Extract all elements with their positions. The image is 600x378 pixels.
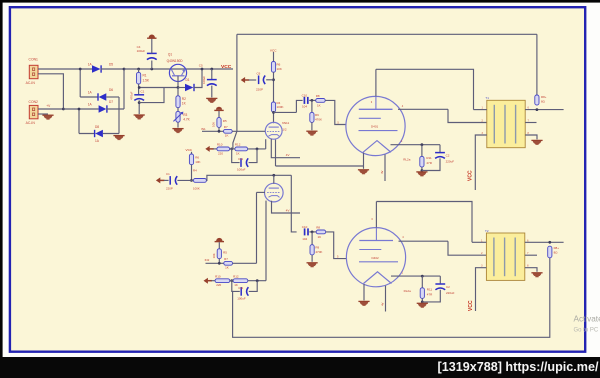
svg-text:220uF: 220uF (446, 160, 455, 164)
driver tube V1 (265, 122, 282, 139)
resistor R20 1K (316, 230, 326, 234)
svg-text:1K: 1K (318, 235, 322, 239)
resistor R6 plate load upper (273, 52, 275, 62)
svg-text:VCC: VCC (468, 170, 474, 181)
svg-text:R11: R11 (426, 156, 432, 160)
T2 left pin3 wire and VCC (476, 268, 487, 311)
ground of R21 (307, 263, 318, 267)
V4 cathode wire right (391, 275, 440, 277)
svg-text:Go to PC se: Go to PC se (574, 328, 600, 334)
svg-text:R9: R9 (315, 245, 319, 249)
output transformer T1 (487, 100, 525, 147)
load resistor R13 (535, 95, 539, 105)
svg-text:220uF: 220uF (446, 291, 455, 295)
ground of C1 (134, 115, 145, 119)
wire R7 to V1 grid (232, 130, 265, 132)
capacitor C1 470uF (134, 94, 144, 96)
power bar above C4 (149, 35, 155, 38)
svg-text:R8+: R8+ (541, 95, 547, 99)
resistor R16 10K (191, 152, 193, 154)
ground of T2 secondary (531, 273, 542, 277)
capacitor C5 100uF (210, 68, 213, 71)
ground at CON2 pin2 (38, 113, 48, 115)
wire CON1 pin2 down to row3 (38, 74, 63, 109)
wire to grid vertical (233, 262, 257, 264)
T2 right pin1 row (525, 241, 564, 243)
svg-text:D402: D402 (372, 256, 380, 260)
svg-text:IN1: IN1 (201, 127, 206, 131)
resistor R15 10K (218, 242, 220, 249)
cathode row port arrow (205, 146, 209, 152)
screen jog to T2 pin2 (448, 241, 486, 255)
resistor R17 1K (224, 261, 233, 265)
V2 screen lead (398, 108, 448, 110)
cathode bypass cap C15 (439, 276, 441, 283)
svg-text:AC-IN: AC-IN (26, 81, 36, 85)
svg-text:RL2a: RL2a (403, 158, 411, 162)
svg-text:47R: 47R (426, 161, 432, 165)
diode D8 (95, 130, 103, 137)
svg-text:CON2: CON2 (29, 100, 39, 104)
svg-text:R4: R4 (277, 101, 281, 105)
bottom coupling cap C14 (304, 228, 306, 235)
svg-text:4V: 4V (381, 302, 385, 306)
svg-text:R7: R7 (224, 125, 228, 129)
svg-text:6N11: 6N11 (282, 121, 289, 125)
svg-text:100K: 100K (193, 186, 200, 190)
T1 right pin2 stub (525, 122, 536, 124)
resistor R4 100K (271, 102, 275, 112)
svg-text:T1: T1 (485, 96, 489, 100)
svg-text:C2: C2 (446, 153, 450, 157)
feedback vertical left (236, 34, 238, 131)
ground of V2 cathode (358, 170, 369, 174)
svg-text:4V: 4V (380, 170, 384, 174)
V2 cathode wire right (391, 144, 441, 146)
V2 heater lead down (384, 155, 386, 182)
svg-text:D401: D401 (371, 125, 379, 129)
svg-text:220: 220 (216, 283, 221, 287)
svg-text:D1: D1 (186, 78, 190, 82)
svg-text:C10: C10 (302, 93, 308, 97)
resistor R8 grid stopper (316, 99, 326, 103)
resistor R2 below Q1 (177, 88, 179, 96)
resistor R19 (233, 279, 248, 283)
feedback jog to cathode node (233, 131, 237, 149)
wire Q1 base down (177, 76, 179, 88)
svg-text:Q40N150D: Q40N150D (167, 59, 184, 63)
wire row4 left (79, 133, 95, 135)
svg-text:10K: 10K (212, 122, 216, 127)
plus bus vertical (123, 69, 125, 109)
ground of C5 (206, 98, 217, 102)
svg-text:VCC: VCC (221, 64, 232, 70)
svg-text:R8: R8 (316, 94, 320, 98)
svg-text:10K: 10K (212, 253, 216, 258)
svg-text:[1319x788] https://upic.me/: [1319x788] https://upic.me/ (438, 360, 599, 374)
resistor R12 feedback (235, 147, 248, 151)
svg-text:470K: 470K (315, 250, 322, 254)
svg-text:100uF: 100uF (237, 297, 246, 301)
svg-text:4.7K: 4.7K (183, 117, 190, 121)
svg-text:R8+: R8+ (554, 246, 560, 250)
load resistor R23 (548, 246, 552, 258)
svg-text:C11: C11 (238, 157, 243, 161)
minus bus vertical (118, 97, 120, 134)
svg-text:R12: R12 (233, 274, 239, 278)
svg-text:C1: C1 (166, 172, 170, 176)
ground of R22 (417, 303, 428, 307)
svg-text:470K: 470K (315, 118, 322, 122)
branch to coupling network (274, 111, 297, 113)
svg-text:D5: D5 (109, 62, 113, 66)
V3 plate lead up (273, 175, 275, 183)
wire R4 bottom to tube plate (273, 112, 275, 123)
connector CON1 (29, 65, 38, 78)
svg-text:CON1: CON1 (29, 57, 39, 61)
svg-text:220P: 220P (256, 87, 263, 91)
T1 right pin1 row to load (525, 109, 563, 111)
wire R6 to node (273, 72, 275, 102)
wire cap to junction (177, 179, 193, 181)
main raw rail to VCC (124, 68, 233, 70)
resistor R7 1K horizontal (224, 129, 233, 133)
svg-text:R5: R5 (223, 119, 227, 123)
VCC arrow above R5 (216, 107, 222, 110)
svg-text:VCC: VCC (468, 300, 474, 311)
resistor R21 470K (311, 232, 313, 245)
svg-text:R10: R10 (217, 143, 223, 147)
svg-text:C1: C1 (141, 89, 145, 93)
diode D1 (178, 87, 185, 89)
wire C1 to ground (138, 100, 140, 114)
svg-text:C10: C10 (302, 225, 308, 229)
svg-text:IN2: IN2 (205, 258, 210, 262)
wire D5 to plus bus (101, 68, 125, 70)
V2 cathode lead left to ground (363, 153, 365, 169)
power tube V2 (346, 96, 405, 155)
heater wire to right (276, 165, 364, 167)
V4 heater lead down (385, 286, 387, 312)
wire D7 to plus bus (106, 108, 124, 110)
ground of Q1 bias chain (172, 129, 183, 133)
cathode resistor R22 47R (421, 276, 423, 288)
svg-text:D6: D6 (109, 88, 113, 92)
V4 cathode lead left (363, 284, 365, 300)
V1 cathode lead (265, 139, 267, 149)
T1 left pin1 stub (474, 109, 487, 111)
svg-text:D7: D7 (109, 100, 113, 104)
bottom grid row wire (206, 262, 224, 264)
T2 left pin1 stub (472, 241, 486, 243)
resistor R1 (137, 68, 140, 71)
svg-text:R5: R5 (223, 250, 227, 254)
svg-text:VCC: VCC (186, 148, 193, 152)
bottom feedback wire (232, 258, 550, 338)
svg-text:Q1: Q1 (168, 53, 172, 57)
svg-text:R6: R6 (195, 156, 199, 160)
svg-text:R4: R4 (193, 169, 197, 173)
T1 right pin3 to ground (525, 135, 537, 139)
wire row3 junction to D7 (63, 108, 98, 110)
svg-text:47R: 47R (427, 292, 433, 296)
port arrow bottom plate net (156, 177, 160, 183)
cathode bypass cap C2 220uF (439, 145, 441, 152)
svg-text:1.5K: 1.5K (143, 79, 150, 83)
bottom plate wire jog up (206, 175, 291, 180)
ground of T1 secondary (531, 140, 542, 144)
resistor R18 (212, 280, 216, 282)
resistor R5 10K vertical (218, 111, 220, 118)
wire cathode row to tube (248, 148, 266, 150)
resistor R10 (213, 148, 217, 150)
plate to transformer wire (376, 69, 474, 109)
cap C12 input (164, 179, 169, 181)
svg-text:R3: R3 (183, 113, 187, 117)
trimmer R3 (177, 108, 179, 112)
wire R3 to ground (177, 122, 179, 127)
wire R20 to power tube grid (326, 232, 347, 259)
svg-text:AC-IN: AC-IN (26, 121, 36, 125)
V4 screen lead (399, 240, 449, 242)
diode D5 (92, 65, 101, 72)
VCC arrow bottom R15 (216, 238, 222, 241)
svg-text:R11: R11 (427, 288, 433, 292)
cathode resistor R11 47R (421, 145, 423, 157)
svg-text:T2: T2 (485, 229, 489, 233)
black left edge (0, 0, 3, 378)
AC bus rows1-2 (79, 69, 81, 97)
capacitor C4 100uF at top (150, 68, 153, 71)
output transformer T2 (486, 233, 524, 280)
T2 right pin2 stub (525, 254, 537, 256)
resistor R9 470K grid leak (311, 100, 313, 112)
svg-text:C2: C2 (446, 285, 450, 289)
svg-text:4V: 4V (286, 208, 290, 212)
svg-text:R8: R8 (316, 226, 320, 230)
diode D6 (99, 93, 107, 100)
svg-text:1K: 1K (225, 134, 229, 138)
ground of R11 (416, 172, 427, 176)
wire C10 to junction (309, 99, 316, 101)
svg-text:220P: 220P (166, 186, 173, 190)
transistor Q1 (169, 64, 186, 81)
svg-text:C5: C5 (199, 64, 203, 68)
wire C14 to junction (309, 231, 316, 233)
svg-text:104: 104 (302, 237, 307, 241)
diode D7 (99, 105, 107, 112)
wire cathode row to tube lead (248, 280, 266, 282)
wire D1 cathode up to rail (194, 69, 202, 88)
svg-text:1K: 1K (225, 266, 229, 270)
feedback wire top span (237, 33, 537, 35)
ground of rectifier minus (113, 136, 124, 140)
wire CON2 pin1 to junction (38, 108, 63, 110)
V2 plate wire up (375, 69, 377, 96)
svg-text:100uF: 100uF (237, 168, 246, 172)
wire row2 left (80, 96, 98, 98)
svg-text:470uF: 470uF (130, 91, 134, 100)
svg-text:10K: 10K (277, 67, 282, 71)
grid row wire (202, 130, 224, 132)
T1 left pin3 wire and VCC rail (475, 135, 487, 190)
wire R8 to power tube grid (325, 100, 346, 124)
svg-text:R9: R9 (315, 113, 319, 117)
svg-text:1K: 1K (317, 104, 321, 108)
svg-text:R7: R7 (224, 257, 228, 261)
svg-text:4V: 4V (286, 153, 290, 157)
svg-text:104: 104 (302, 104, 307, 108)
cap C13 parallel (232, 281, 240, 292)
feedback drop from top wire (536, 34, 538, 95)
svg-text:R10: R10 (215, 274, 221, 278)
V3 heater stub (272, 201, 301, 213)
coupling cap C10 (303, 97, 305, 104)
ground of V4 cathode (358, 301, 369, 305)
svg-text:Activate W: Activate W (574, 315, 600, 324)
svg-text:R1: R1 (143, 74, 147, 78)
svg-text:R12: R12 (235, 143, 241, 147)
svg-text:RL2a: RL2a (404, 289, 412, 293)
svg-text:220: 220 (218, 151, 223, 155)
connector CON2 (29, 105, 38, 118)
svg-text:1K: 1K (236, 151, 240, 155)
bottom watermark bar (0, 357, 600, 378)
svg-text:C6: C6 (257, 72, 261, 76)
capacitor C6 to port (266, 79, 273, 81)
cap C11 100uF parallel (232, 149, 240, 163)
wire D8 to minus bus (103, 133, 119, 135)
base node wire from R1/C1 (139, 87, 178, 89)
screen jog to transformer pin2 (448, 109, 487, 122)
ground of R9 (306, 131, 317, 135)
driver tube V3 (265, 183, 284, 202)
black top edge (0, 0, 600, 3)
svg-text:VCC: VCC (270, 48, 277, 52)
V3 grid vertical (256, 192, 258, 263)
svg-text:10K: 10K (195, 160, 200, 164)
power tube V4 (346, 228, 405, 287)
T2 right pin3 to ground (525, 268, 537, 272)
resistor R14 100K (193, 179, 206, 183)
V1 heater lead down (275, 140, 277, 166)
heater stub 4V (271, 139, 300, 158)
svg-text:R2: R2 (182, 97, 186, 101)
svg-text:100uF: 100uF (202, 76, 206, 84)
bottom plate drop to coupling cap (291, 175, 296, 232)
svg-text:D8: D8 (95, 125, 99, 129)
bottom cathode row port (204, 278, 208, 284)
plate to transformer wire bottom (376, 202, 472, 243)
svg-text:1/2: 1/2 (282, 128, 287, 132)
port arrow at C6 (241, 77, 245, 83)
svg-text:100uF: 100uF (137, 49, 146, 53)
wire jog base to C1 bottom (139, 88, 164, 103)
wire CON1 pin1 to D5 (38, 68, 92, 70)
svg-text:C11: C11 (238, 286, 243, 290)
V4 plate wire up (375, 202, 377, 228)
svg-text:100K: 100K (277, 105, 284, 109)
wire D6 to minus bus (106, 96, 119, 98)
V3 cathode lead down (265, 201, 267, 281)
V3 grid lead (257, 191, 266, 193)
wire branch up to cap C10 (296, 100, 302, 112)
AC bus rows3-4 (78, 109, 80, 134)
